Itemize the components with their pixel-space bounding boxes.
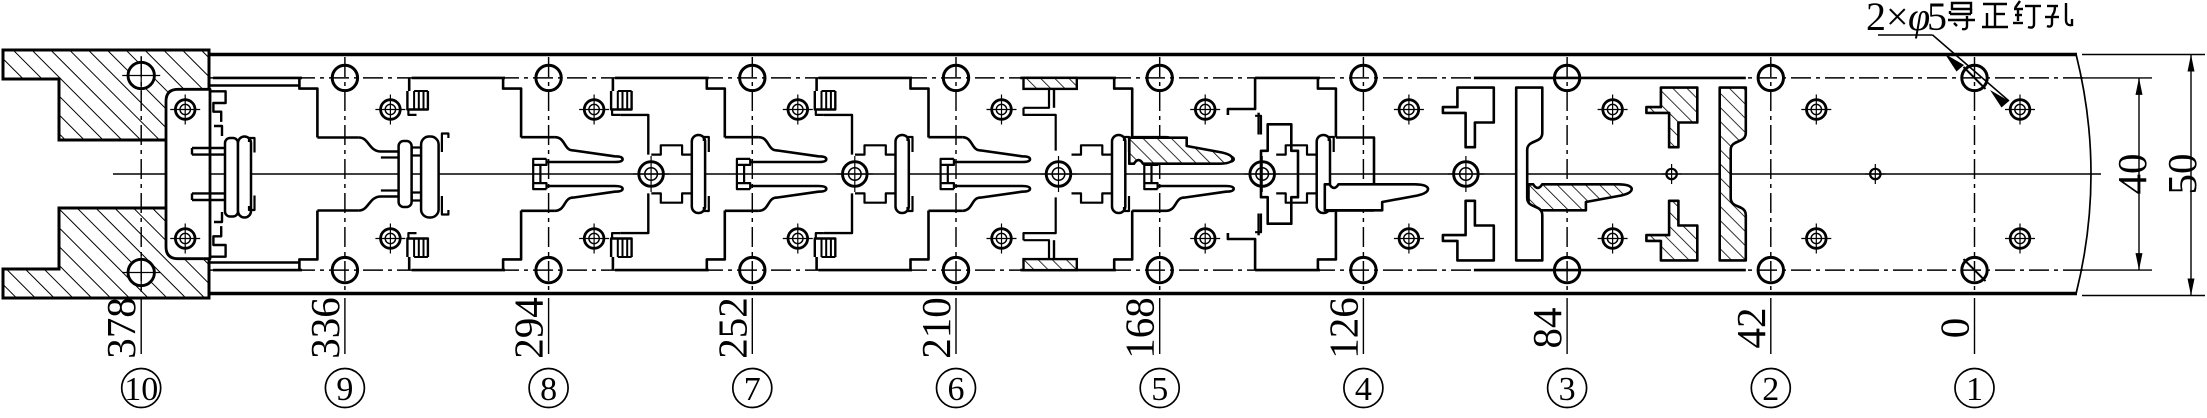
- station 7 top guide hole: [788, 100, 808, 120]
- station 6 centre hole: [1046, 162, 1071, 187]
- station 9 part flange profile: [317, 136, 359, 139]
- svg-text:4: 4: [1355, 371, 1372, 408]
- station 8 bottom pilot hole: [536, 257, 561, 282]
- station 7 top pilot hole: [740, 65, 765, 90]
- carrier edge segment top: [615, 77, 709, 80]
- station 5 forming punch blade (hatched): [1129, 138, 1232, 164]
- carrier edge segment bottom: [1474, 269, 1746, 272]
- station 9 bottom guide hole: [381, 229, 401, 249]
- leader line: [1878, 34, 1933, 36]
- station 5 centre hole: [1250, 162, 1275, 187]
- station 1 bottom pilot slash: [1964, 259, 1986, 281]
- station 3 boot punch top (hatched): [1646, 88, 1697, 148]
- dim 50 line with arrows: [2190, 55, 2192, 296]
- svg-text:336: 336: [302, 297, 348, 359]
- station 6 vertical centre line: [955, 57, 957, 292]
- station 8 part fork profile: [521, 136, 555, 139]
- station 3 blade punch (hatched): [1529, 184, 1632, 210]
- svg-text:1: 1: [1966, 371, 1983, 408]
- dimension extension line 126: [1362, 298, 1364, 354]
- svg-text:2: 2: [1762, 371, 1779, 408]
- carrier edge segment top: [1020, 77, 1116, 80]
- station 1 bottom guide hole: [2010, 229, 2030, 249]
- station 9 top guide hole: [381, 100, 401, 120]
- station 2 top pilot hole: [1758, 65, 1783, 90]
- svg-text:50: 50: [2159, 154, 2205, 195]
- dim 40 extension bottom: [2080, 269, 2152, 271]
- station 6 blanking window outline: [911, 78, 929, 138]
- station 6 bottom pilot hole: [943, 257, 968, 282]
- station 10 bottom guide hole (over part): [175, 229, 195, 249]
- svg-text:3: 3: [1559, 371, 1576, 408]
- station 10 bottom guide hole: [177, 229, 197, 249]
- station 6 right edge chain: [1024, 108, 1056, 151]
- carrier edge segment top: [1474, 77, 1746, 80]
- carrier edge segment top: [213, 77, 302, 80]
- character ding: [2013, 1, 2041, 28]
- formed blade outline after station 4: [1325, 184, 1428, 210]
- station 7 bottom guide hole: [788, 229, 808, 249]
- station 10 finished part: [166, 89, 210, 258]
- dimension extension line 210: [955, 298, 957, 354]
- station 5 part fork profile: [1132, 136, 1166, 139]
- station 2 bottom guide hole: [1807, 229, 1827, 249]
- station 7 vertical centre line: [751, 57, 753, 292]
- station number 9 circled: [325, 369, 364, 408]
- block slot edge top: [210, 84, 300, 86]
- dimension extension line 168: [1159, 298, 1161, 354]
- svg-text:9: 9: [336, 371, 353, 408]
- station 4 H-shaped slot and interior: [1257, 113, 1259, 135]
- flange cap between stations 5 and 4: [1317, 135, 1330, 213]
- block slot edge bottom: [210, 261, 300, 263]
- station 8 top guide hole: [584, 100, 604, 120]
- svg-text:378: 378: [98, 297, 144, 359]
- dim 50 extension top: [2082, 54, 2205, 56]
- station 4 bottom guide hole: [1399, 229, 1419, 249]
- station 2 bottom pilot hole: [1758, 257, 1783, 282]
- station 5 blanking window outline: [1114, 78, 1132, 138]
- dim 40 line with arrows: [2138, 78, 2140, 270]
- bottom pilot row centre line: [125, 269, 2085, 271]
- carrier edge segment bottom: [412, 269, 505, 272]
- station 6 part fork profile: [929, 136, 963, 139]
- flange cap between stations 7 and 6: [896, 135, 909, 213]
- station 1 bottom pilot hole: [1962, 257, 1987, 282]
- station number 3 circled: [1548, 369, 1587, 408]
- top pilot row centre line: [125, 77, 2085, 79]
- station 4 vertical centre line: [1362, 57, 1364, 292]
- station 2 vertical centre line: [1770, 57, 1772, 292]
- svg-text:168: 168: [1117, 297, 1163, 359]
- station 1 top pilot hole: [1962, 65, 1987, 90]
- station 9 bottom pilot hole: [332, 257, 357, 282]
- svg-text:210: 210: [913, 297, 959, 359]
- character kong: [2045, 3, 2072, 27]
- station 7 right edge chain: [824, 115, 852, 155]
- dim 40 extension top: [2080, 77, 2152, 79]
- dimension extension line 336: [344, 298, 346, 354]
- station 8 bottom guide hole: [584, 229, 604, 249]
- station 5 vertical centre line: [1159, 57, 1161, 292]
- svg-text:126: 126: [1320, 297, 1366, 359]
- station 5 bottom pilot hole: [1147, 257, 1172, 282]
- station 8 centre hole: [639, 162, 664, 187]
- station 5 right edge: [1228, 78, 1255, 115]
- die block top pilot hole: [128, 62, 154, 88]
- station 8 top pilot hole: [536, 65, 561, 90]
- station 3 bar punch (hatched): [1720, 88, 1746, 261]
- station 10 top guide hole (over part): [175, 100, 195, 120]
- station 9 top pilot hole: [332, 65, 357, 90]
- pierced bar outline after station 3: [1516, 88, 1542, 261]
- station 8 blanking window outline: [503, 78, 521, 138]
- dimension extension line 84: [1566, 298, 1568, 354]
- station 4 blanking window outline: [1318, 78, 1336, 138]
- station 6 top pilot hole: [943, 65, 968, 90]
- dimension extension line 42: [1770, 298, 1772, 354]
- flange cap between stations 6 and 5: [1112, 135, 1125, 213]
- station 3 vertical centre line: [1566, 57, 1568, 292]
- carrier edge segment bottom: [818, 269, 912, 272]
- station 6 top guide hole: [992, 100, 1012, 120]
- station 7 notch tab: [815, 78, 818, 91]
- station 2 top guide hole: [1807, 100, 1827, 120]
- svg-text:10: 10: [124, 371, 158, 408]
- station 3 boot punch bottom (hatched): [1646, 201, 1697, 261]
- strip bottom edge: [209, 292, 2077, 296]
- svg-text:252: 252: [709, 297, 755, 359]
- carrier edge segment top: [818, 77, 912, 80]
- station 6 notch punch (hatched): [1024, 78, 1077, 89]
- station 10 vertical centre line: [140, 57, 142, 292]
- carrier edge segment bottom: [1255, 269, 1320, 272]
- svg-text:7: 7: [744, 371, 761, 408]
- station 3 bottom pilot hole: [1554, 257, 1579, 282]
- station 3 top guide hole: [1603, 100, 1623, 120]
- station 3 centre pre-punch dot: [1666, 169, 1676, 179]
- station number 1 circled: [1955, 369, 1994, 408]
- carrier edge segment bottom: [615, 269, 709, 272]
- station 1 top pilot slash: [1964, 67, 1986, 89]
- dimension extension line 378: [140, 298, 142, 354]
- svg-text:0: 0: [1932, 318, 1978, 339]
- carrier edge segment top: [1255, 77, 1320, 80]
- station 6 bottom guide hole: [992, 229, 1012, 249]
- svg-text:84: 84: [1524, 308, 1570, 349]
- die block bottom pilot hole: [128, 259, 154, 285]
- station number 8 circled: [529, 369, 568, 408]
- station 8 right edge chain: [620, 115, 648, 155]
- svg-text:2×: 2×: [1866, 0, 1909, 39]
- flange cap between stations 8 and 7: [692, 135, 705, 213]
- svg-text:5: 5: [1927, 0, 1947, 39]
- station number 6 circled: [937, 369, 976, 408]
- station 9 vertical centre line: [344, 57, 346, 292]
- svg-text:8: 8: [540, 371, 557, 408]
- svg-text:40: 40: [2109, 154, 2155, 195]
- cut-off die block (hatched): [3, 50, 209, 140]
- station 5 top pilot hole: [1147, 65, 1172, 90]
- svg-text:5: 5: [1151, 371, 1168, 408]
- strip top edge: [209, 53, 2077, 57]
- station 3 top pilot hole: [1554, 65, 1579, 90]
- station 8 vertical centre line: [548, 57, 550, 292]
- station 1 vertical centre line: [1974, 57, 1976, 292]
- station 8 notch tab: [612, 78, 615, 91]
- station number 4 circled: [1344, 369, 1383, 408]
- station 4 centre hole: [1454, 162, 1479, 187]
- station 4 bottom pilot hole: [1351, 257, 1376, 282]
- station 7 centre hole: [843, 162, 868, 187]
- dimension extension line 252: [751, 298, 753, 354]
- station 9 blanking window outline: [299, 78, 317, 138]
- station 7 part fork profile: [725, 136, 759, 139]
- pierced boot outline after station 3 (top): [1443, 88, 1494, 148]
- station 3 bottom guide hole: [1603, 229, 1623, 249]
- station number 7 circled: [733, 369, 772, 408]
- station 4 top pilot hole: [1351, 65, 1376, 90]
- station 7 blanking window outline: [707, 78, 725, 138]
- dim 50 extension bottom: [2082, 295, 2205, 297]
- character zheng: [1982, 4, 2008, 27]
- carrier edge segment top: [412, 77, 505, 80]
- station 4 top guide hole: [1399, 100, 1419, 120]
- horizontal centre line: [113, 173, 2101, 175]
- station 5 top guide hole: [1195, 100, 1215, 120]
- dimension extension line 294: [548, 298, 550, 354]
- strip right break arc: [2076, 54, 2091, 294]
- pierced boot outline after station 3 (bottom): [1443, 201, 1494, 261]
- station 1 top guide hole: [2010, 100, 2030, 120]
- svg-text:6: 6: [948, 371, 965, 408]
- station 9 notch tab: [408, 78, 411, 91]
- station 7 bottom pilot hole: [740, 257, 765, 282]
- carrier edge segment bottom: [213, 269, 302, 272]
- station 2 centre pre-punch dot: [1870, 169, 1880, 179]
- station number 10 circled: [122, 369, 161, 408]
- svg-text:294: 294: [506, 297, 552, 359]
- station number 2 circled: [1751, 369, 1790, 408]
- station 10 top guide hole: [177, 100, 197, 120]
- svg-text:42: 42: [1728, 308, 1774, 349]
- character dao: [1948, 3, 1975, 29]
- carrier edge segment bottom: [1020, 269, 1116, 272]
- station number 5 circled: [1140, 369, 1179, 408]
- station 5 bottom guide hole: [1195, 229, 1215, 249]
- dimension extension line 0: [1974, 298, 1976, 354]
